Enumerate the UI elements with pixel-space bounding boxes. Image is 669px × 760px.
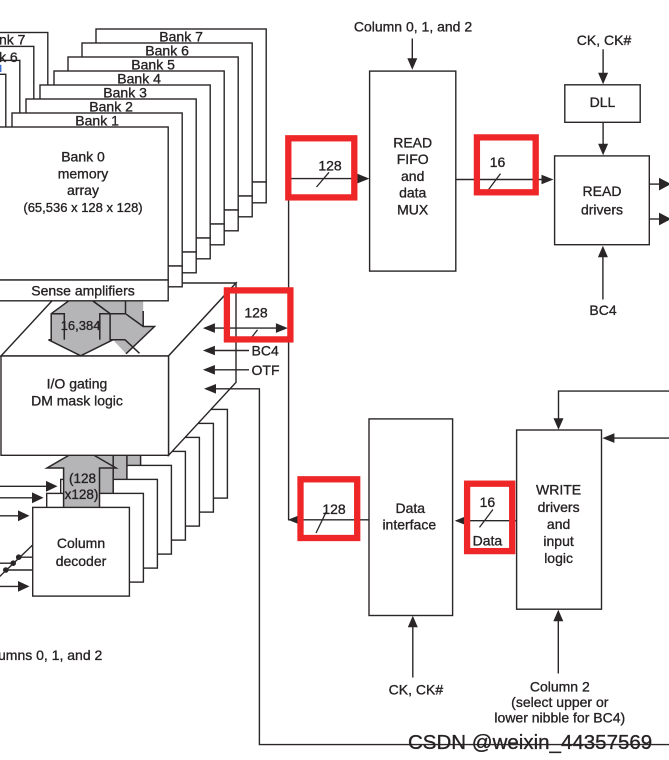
- wire Column 2 into WRITE drivers bottom: [553, 610, 563, 674]
- svg-text:128: 128: [318, 157, 342, 173]
- svg-text:Sense amplifiers: Sense amplifiers: [31, 282, 135, 298]
- sense amplifier strip bank 5: [68, 210, 238, 231]
- sense amplifier strip bank 7: [96, 182, 266, 203]
- READ drivers box: [555, 156, 650, 245]
- label Column 2 (select upper or lower nibble for BC4): [494, 678, 625, 725]
- bank box 7: [96, 29, 266, 183]
- wire DLL to READ drivers: [598, 122, 608, 155]
- bidirectional 128 bus at I/O gating: [203, 323, 288, 333]
- sense amplifier strip bank 6: [82, 196, 252, 217]
- svg-text:16: 16: [480, 494, 496, 510]
- sense amplifier strip bank 3: [40, 238, 210, 259]
- diagonal column select bus with junction dots: [0, 545, 33, 580]
- red highlight box around 16 (read bus to READ drivers): [477, 137, 536, 192]
- svg-text:array: array: [67, 182, 99, 198]
- I/O gating 3D slab top face: [1, 283, 236, 356]
- svg-text:128: 128: [322, 501, 346, 517]
- svg-text:Bank 1: Bank 1: [75, 113, 119, 129]
- svg-text:nk 7: nk 7: [0, 31, 26, 47]
- svg-text:READ: READ: [583, 183, 622, 199]
- bus slash for 128 write bus: [316, 512, 326, 533]
- svg-text:umns 0, 1, and 2: umns 0, 1, and 2: [0, 647, 103, 663]
- bus slash for 128 gating bus: [248, 330, 258, 342]
- BC4 wire into I/O gating: [203, 346, 249, 356]
- svg-text:(128: (128: [69, 471, 96, 486]
- svg-text:lower nibble for BC4): lower nibble for BC4): [494, 710, 625, 726]
- wire column address into READ FIFO: [407, 39, 417, 70]
- bank box 6: [82, 43, 252, 197]
- svg-text:Data: Data: [396, 500, 426, 516]
- Data interface box: [369, 419, 453, 616]
- wire into column decoder bank1: [0, 492, 44, 503]
- I/O gating front face: [1, 356, 169, 455]
- bank 0 memory array box: [0, 127, 168, 280]
- svg-text:and: and: [401, 168, 424, 184]
- bank box 5: [68, 57, 238, 211]
- svg-text:OTF: OTF: [252, 362, 280, 378]
- partial bank stack at far left, box A4: [0, 74, 6, 174]
- svg-text:interface: interface: [382, 517, 436, 533]
- svg-text:x128): x128): [65, 487, 99, 502]
- write 128 bus from Data interface to vertical bus: [288, 515, 370, 525]
- blue label fragment: [0, 65, 1, 72]
- svg-text:DM mask logic: DM mask logic: [31, 393, 123, 409]
- 16 Data bus from WRITE drivers to Data interface: [455, 516, 517, 526]
- svg-text:Column: Column: [57, 535, 105, 551]
- DLL box: [565, 85, 640, 123]
- WRITE drivers and input logic box: [517, 430, 602, 609]
- wires into column decoder bank2: [0, 481, 58, 492]
- column decoder box bank 3: [75, 465, 172, 554]
- sense amplifiers box bank 0: [0, 280, 168, 301]
- gray read arrow cascade (background banks): [92, 301, 154, 354]
- svg-text:DLL: DLL: [590, 94, 616, 110]
- I/O gating 3D slab right face: [169, 283, 237, 455]
- vertical read bus wire x=287: [288, 179, 290, 520]
- 16 bus wire READ FIFO to READ drivers: [456, 175, 554, 185]
- svg-text:I/O gating: I/O gating: [47, 376, 108, 392]
- bank box 2: [26, 99, 196, 253]
- sense amplifier strip bank 2: [26, 252, 196, 273]
- svg-text:BC4: BC4: [589, 302, 616, 318]
- red highlight box around 128 (data interface bus): [301, 479, 358, 538]
- svg-text:CK, CK#: CK, CK#: [389, 682, 444, 698]
- column decoder box bank 2: [61, 479, 158, 568]
- svg-text:Column 0, 1, and 2: Column 0, 1, and 2: [354, 18, 473, 34]
- gray write arrow bank0 with (128 x128) label: [47, 448, 116, 508]
- svg-text:BC4: BC4: [252, 343, 279, 359]
- svg-text:(select upper or: (select upper or: [511, 694, 609, 710]
- svg-text:16: 16: [490, 154, 506, 170]
- svg-text:k 6: k 6: [0, 49, 18, 65]
- red highlight box around 128 (read bus to READ FIFO): [288, 138, 354, 197]
- sense amplifier strip bank 1: [12, 266, 182, 287]
- svg-text:128: 128: [244, 305, 268, 321]
- svg-text:Bank 0: Bank 0: [61, 149, 105, 165]
- svg-text:drivers: drivers: [581, 201, 623, 217]
- wire from right edge into WRITE drivers right: [602, 433, 669, 443]
- bank box 4: [54, 71, 224, 225]
- column decoder box bank 0: [33, 507, 130, 596]
- gray write arrow bank3 (background): [88, 407, 157, 467]
- svg-text:input: input: [543, 533, 573, 549]
- svg-text:Data: Data: [473, 533, 503, 549]
- gray write arrow bank1 (background): [61, 434, 130, 494]
- READ FIFO and data MUX box: [370, 71, 456, 271]
- bank box 3: [40, 85, 210, 239]
- svg-text:drivers: drivers: [538, 499, 580, 515]
- partial bank stack at far left (cut off), box A7: [0, 33, 48, 133]
- column decoder stacked boxes banks 7..3: [89, 409, 228, 540]
- svg-text:WRITE: WRITE: [536, 482, 581, 498]
- svg-text:MUX: MUX: [397, 202, 429, 218]
- svg-text:Column 2: Column 2: [530, 678, 590, 694]
- svg-text:16,384: 16,384: [61, 318, 101, 333]
- svg-text:(65,536 x 128 x 128): (65,536 x 128 x 128): [23, 200, 142, 215]
- gray read arrow bank0: [49, 301, 113, 356]
- gray write arrow bank2 (background): [74, 421, 143, 481]
- OTF wire into I/O gating: [203, 365, 249, 375]
- output wire 1 from READ drivers: [649, 178, 669, 191]
- bank box 1: [12, 113, 182, 267]
- bus slash for 16 read bus: [489, 174, 501, 190]
- svg-text:logic: logic: [544, 550, 573, 566]
- svg-text:and: and: [547, 516, 570, 532]
- wire CK into DLL: [598, 49, 608, 84]
- bus slash for 128 read bus: [317, 172, 330, 187]
- svg-text:memory: memory: [58, 165, 109, 181]
- wire CK into Data interface bottom: [408, 616, 418, 678]
- write data wire into I/O gating from bottom rail: [204, 384, 669, 745]
- svg-text:READ: READ: [393, 134, 432, 150]
- output wire 2 from READ drivers: [649, 213, 669, 226]
- bus slash for 16 Data bus: [480, 510, 493, 528]
- svg-text:CK, CK#: CK, CK#: [577, 32, 632, 48]
- red highlight box around 16 Data: [467, 484, 512, 551]
- red highlight box around 128 (I/O gating bus): [227, 290, 291, 339]
- svg-text:data: data: [399, 185, 426, 201]
- label (128 x128) on gray write arrow: [65, 471, 99, 502]
- partial bank stack at far left, box A5: [0, 60, 20, 160]
- BC4 wire into READ drivers: [598, 246, 608, 300]
- column decoder box bank 1: [47, 493, 144, 582]
- svg-text:decoder: decoder: [56, 553, 107, 569]
- wire into column decoder bank0 top: [0, 510, 30, 521]
- wire into column decoder bank0 bottom: [0, 581, 30, 592]
- sense amplifier strip bank 4: [54, 224, 224, 245]
- read bus 128 wire into READ FIFO: [289, 174, 370, 184]
- svg-text:FIFO: FIFO: [397, 151, 429, 167]
- partial bank stack at far left, box A6: [0, 46, 34, 146]
- svg-text:CSDN @weixin_44357569: CSDN @weixin_44357569: [408, 731, 652, 754]
- wire from right edge down into WRITE drivers top: [554, 391, 669, 430]
